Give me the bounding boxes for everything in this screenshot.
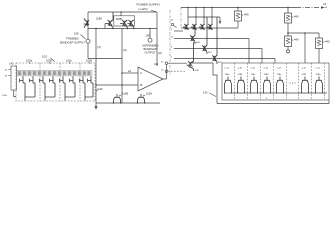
transistor row Q c [199,24,205,30]
terminal arrow 247 [321,6,325,8]
cell 128g [315,68,323,94]
transistor pair cell 100a [20,76,35,100]
svg-text:110B: 110B [122,92,128,96]
leader RB [292,16,294,18]
svg-text:118B: 118B [116,17,122,21]
svg-text:120a: 120a [2,95,8,97]
pin tick 18 [9,75,12,77]
svg-text:[8]: [8] [159,51,162,55]
transistor Q118B-1 [120,20,127,29]
svg-text:24: 24 [128,69,131,73]
transistor row Q d [207,24,213,30]
cell 128a [224,68,232,94]
leader 100b [49,62,50,64]
chip boundary upper vertical [180,8,182,29]
wire mid drop x305 [304,33,306,63]
transistor pair cell 100c [60,76,75,100]
wire dashed aux [168,70,186,72]
wire stub at chip edge [84,23,89,25]
junction dot y33 [287,32,289,34]
wire output up leg [166,65,168,80]
transistor row Q a [183,24,189,30]
wire bottom emitter bus [96,102,160,104]
wire resistor A top leg [237,8,239,12]
junction dots 110B [113,102,114,103]
transistor Q110A [137,94,144,103]
transistor Q100 diode-connected [84,18,89,28]
svg-text:a-12: a-12 [302,68,307,70]
svg-text:POWER SUPPLY: POWER SUPPLY [137,3,161,7]
chip boundary dash-dot left [169,10,171,75]
wire 140 bottom leg [14,90,16,97]
cell 128e [276,68,284,94]
emitter rail in box 128 [224,92,327,94]
wire resistor C bottom leg [287,47,289,51]
dashed separator 1 [39,63,41,101]
leader 100d [89,62,90,64]
op-amp plus mark [140,84,142,86]
pin tick 16 [9,69,12,71]
junction dot rail x288 [287,7,289,9]
wire pin to Q436 base [168,62,187,64]
junction dot y33 b [304,32,306,34]
comb leg a [187,8,189,25]
wire resistor D bottom leg [318,49,320,64]
wire staircase drop 2 [261,49,263,64]
cell 128c [250,68,258,94]
svg-text:a-15: a-15 [251,68,256,70]
svg-text:a-17: a-17 [225,68,230,70]
wire right edge of left block [156,12,158,66]
wire op-amp plus input [96,84,138,86]
wire base Q1 row y38 [174,38,249,40]
cascade transistor Q426 [212,17,217,64]
wire rail to pair box [120,12,122,16]
wire op-amp minus input [122,72,138,74]
wire staircase drop 1 [248,39,250,64]
svg-text:24: 24 [323,2,326,6]
leader 110B [119,95,121,96]
junction dot y28 a [95,28,97,30]
terminal circle below RC [287,50,290,53]
svg-text:[4]: [4] [98,45,101,49]
svg-text:440: 440 [244,13,249,17]
leader RC [292,39,294,41]
cascade transistor Q408 [190,25,195,45]
svg-text:128a: 128a [225,74,231,76]
leader RD [323,41,325,43]
ground arrow [95,103,97,107]
resistor RA [235,11,242,21]
transistor Q118A [105,12,113,29]
svg-text:(+12V): (+12V) [139,7,148,11]
pin circle mid [165,70,168,73]
ellipsis in box [290,83,291,84]
svg-text:128g: 128g [316,74,322,76]
pin tick 42 [174,26,177,28]
svg-text:142: 142 [203,91,208,95]
wire left edge below terminal [87,44,89,59]
wire 142 riser [328,100,330,104]
cell 128b [237,68,245,94]
dashed array box 100 [16,63,95,101]
pin circle 42 [171,23,173,25]
wire 142 bus bottom [217,103,329,105]
resistor string band elements [18,71,90,75]
svg-text:128f: 128f [302,74,307,76]
wire resistor B bottom leg [287,23,289,33]
wire base Q3 row y58 [174,58,275,60]
wire second rail y28.5 [88,28,157,30]
svg-text:112: 112 [154,62,159,66]
wire top rail left block [88,11,157,13]
resistor string band background [17,70,93,76]
wire cross bus y33 [288,32,319,34]
op-amp minus mark [140,72,142,74]
wire comb bus y17 [188,16,220,18]
wire resistor A bottom leg [237,21,239,28]
leader 100a [29,62,30,64]
svg-text:UNTRIMMED: UNTRIMMED [142,44,158,48]
dashed separator 3 [79,63,81,101]
leader 102 [51,58,55,62]
comb leg d [211,8,213,25]
arrow down at comb end [219,17,221,22]
svg-text:128b: 128b [238,74,244,76]
svg-text:108: 108 [74,32,79,36]
wire leader from power supply label to rail [151,10,156,12]
transistor pair cell 100b [40,76,55,100]
svg-text:126: 126 [98,87,103,91]
cell 128d [263,68,271,94]
svg-text:102: 102 [42,55,47,59]
wire R leg x122 [121,29,123,104]
matched pair box 118B [114,16,135,26]
wire base bus of 118 pair [104,24,106,29]
wire base bus row [181,27,238,29]
junction dot rail x121 [120,11,122,13]
svg-text:BANDGAP OUTPUT: BANDGAP OUTPUT [60,41,85,45]
terminal TRIMMED BANDGAP OUTPUT [86,39,90,43]
svg-text:BANDGAP: BANDGAP [144,47,157,51]
op-amp U112 [138,67,163,91]
dashed separator 2 [59,63,61,101]
svg-text:OUTPUT: OUTPUT [145,51,156,55]
transistor Q118B-2 [128,20,134,29]
leader 108 [81,35,86,40]
svg-text:440: 440 [325,40,330,44]
transistor row Q b [191,24,197,30]
wire staircase drop 3 [274,59,276,64]
wire base Q2 row y48 [174,48,262,50]
svg-text:128d: 128d [264,74,270,76]
leader 126 [96,89,98,92]
wire resistor C top leg [287,33,289,36]
junction dots comb [195,16,196,17]
svg-text:a-16: a-16 [238,68,243,70]
wire top right rail dashdot [240,7,296,9]
junction dots 110A [137,102,138,103]
cell 128f [301,68,309,94]
wire 436 output leg [190,63,217,104]
junction dot rail x238 [237,7,239,9]
transistor Q110B [113,94,120,103]
wire resistor D top leg [318,33,320,38]
junction dot minus input [121,72,123,74]
wire left edge of left block [87,12,89,39]
wire R leg x96 [95,29,97,104]
resistor string band rails [17,70,93,76]
wire cross link y58.5 [88,58,122,60]
leader 110A [143,95,145,96]
wire pin stub y31 [174,30,183,32]
leader 142 [210,93,217,97]
svg-text:440: 440 [294,38,299,42]
wire resistor B top leg [287,8,289,14]
terminal UNTRIMMED BANDGAP OUTPUT [148,38,152,42]
svg-text:440: 440 [294,15,299,19]
junction dot x150 [149,28,151,30]
box 128 separators [235,63,325,100]
resistor 140 body [11,66,17,90]
junction dot y28 b [112,28,114,30]
leader RA [242,14,244,16]
svg-text:TRIMMED: TRIMMED [66,37,79,41]
svg-text:128e: 128e [277,74,283,76]
svg-text:118A: 118A [96,17,102,21]
svg-text:145: 145 [146,34,151,38]
pin circle op-amp out top [165,62,168,65]
svg-text:140: 140 [9,62,14,66]
resistor RD [316,38,323,49]
svg-text:a-13: a-13 [277,68,282,70]
resistor RB [285,13,292,23]
wire terminal stub x150 [149,29,151,39]
transistor pair cell 100d [80,76,93,100]
svg-text:a-14: a-14 [264,68,269,70]
wire top right rail [181,7,240,9]
leader 100c [69,62,70,64]
junction dot y28 d [133,28,135,30]
cascade transistor Q410 [202,17,207,54]
svg-text:110A: 110A [146,92,152,96]
comb leg b [195,8,197,25]
transistor Q436 [187,42,194,71]
junction dot plus a [95,84,96,85]
junction dot y28 c [127,28,129,30]
resistor RC [285,36,292,47]
array box 128 outline [222,63,329,100]
wire op-amp output [163,78,167,80]
svg-text:[6]: [6] [124,48,127,52]
comb leg c [203,8,205,25]
junction dot plus c [121,84,122,85]
